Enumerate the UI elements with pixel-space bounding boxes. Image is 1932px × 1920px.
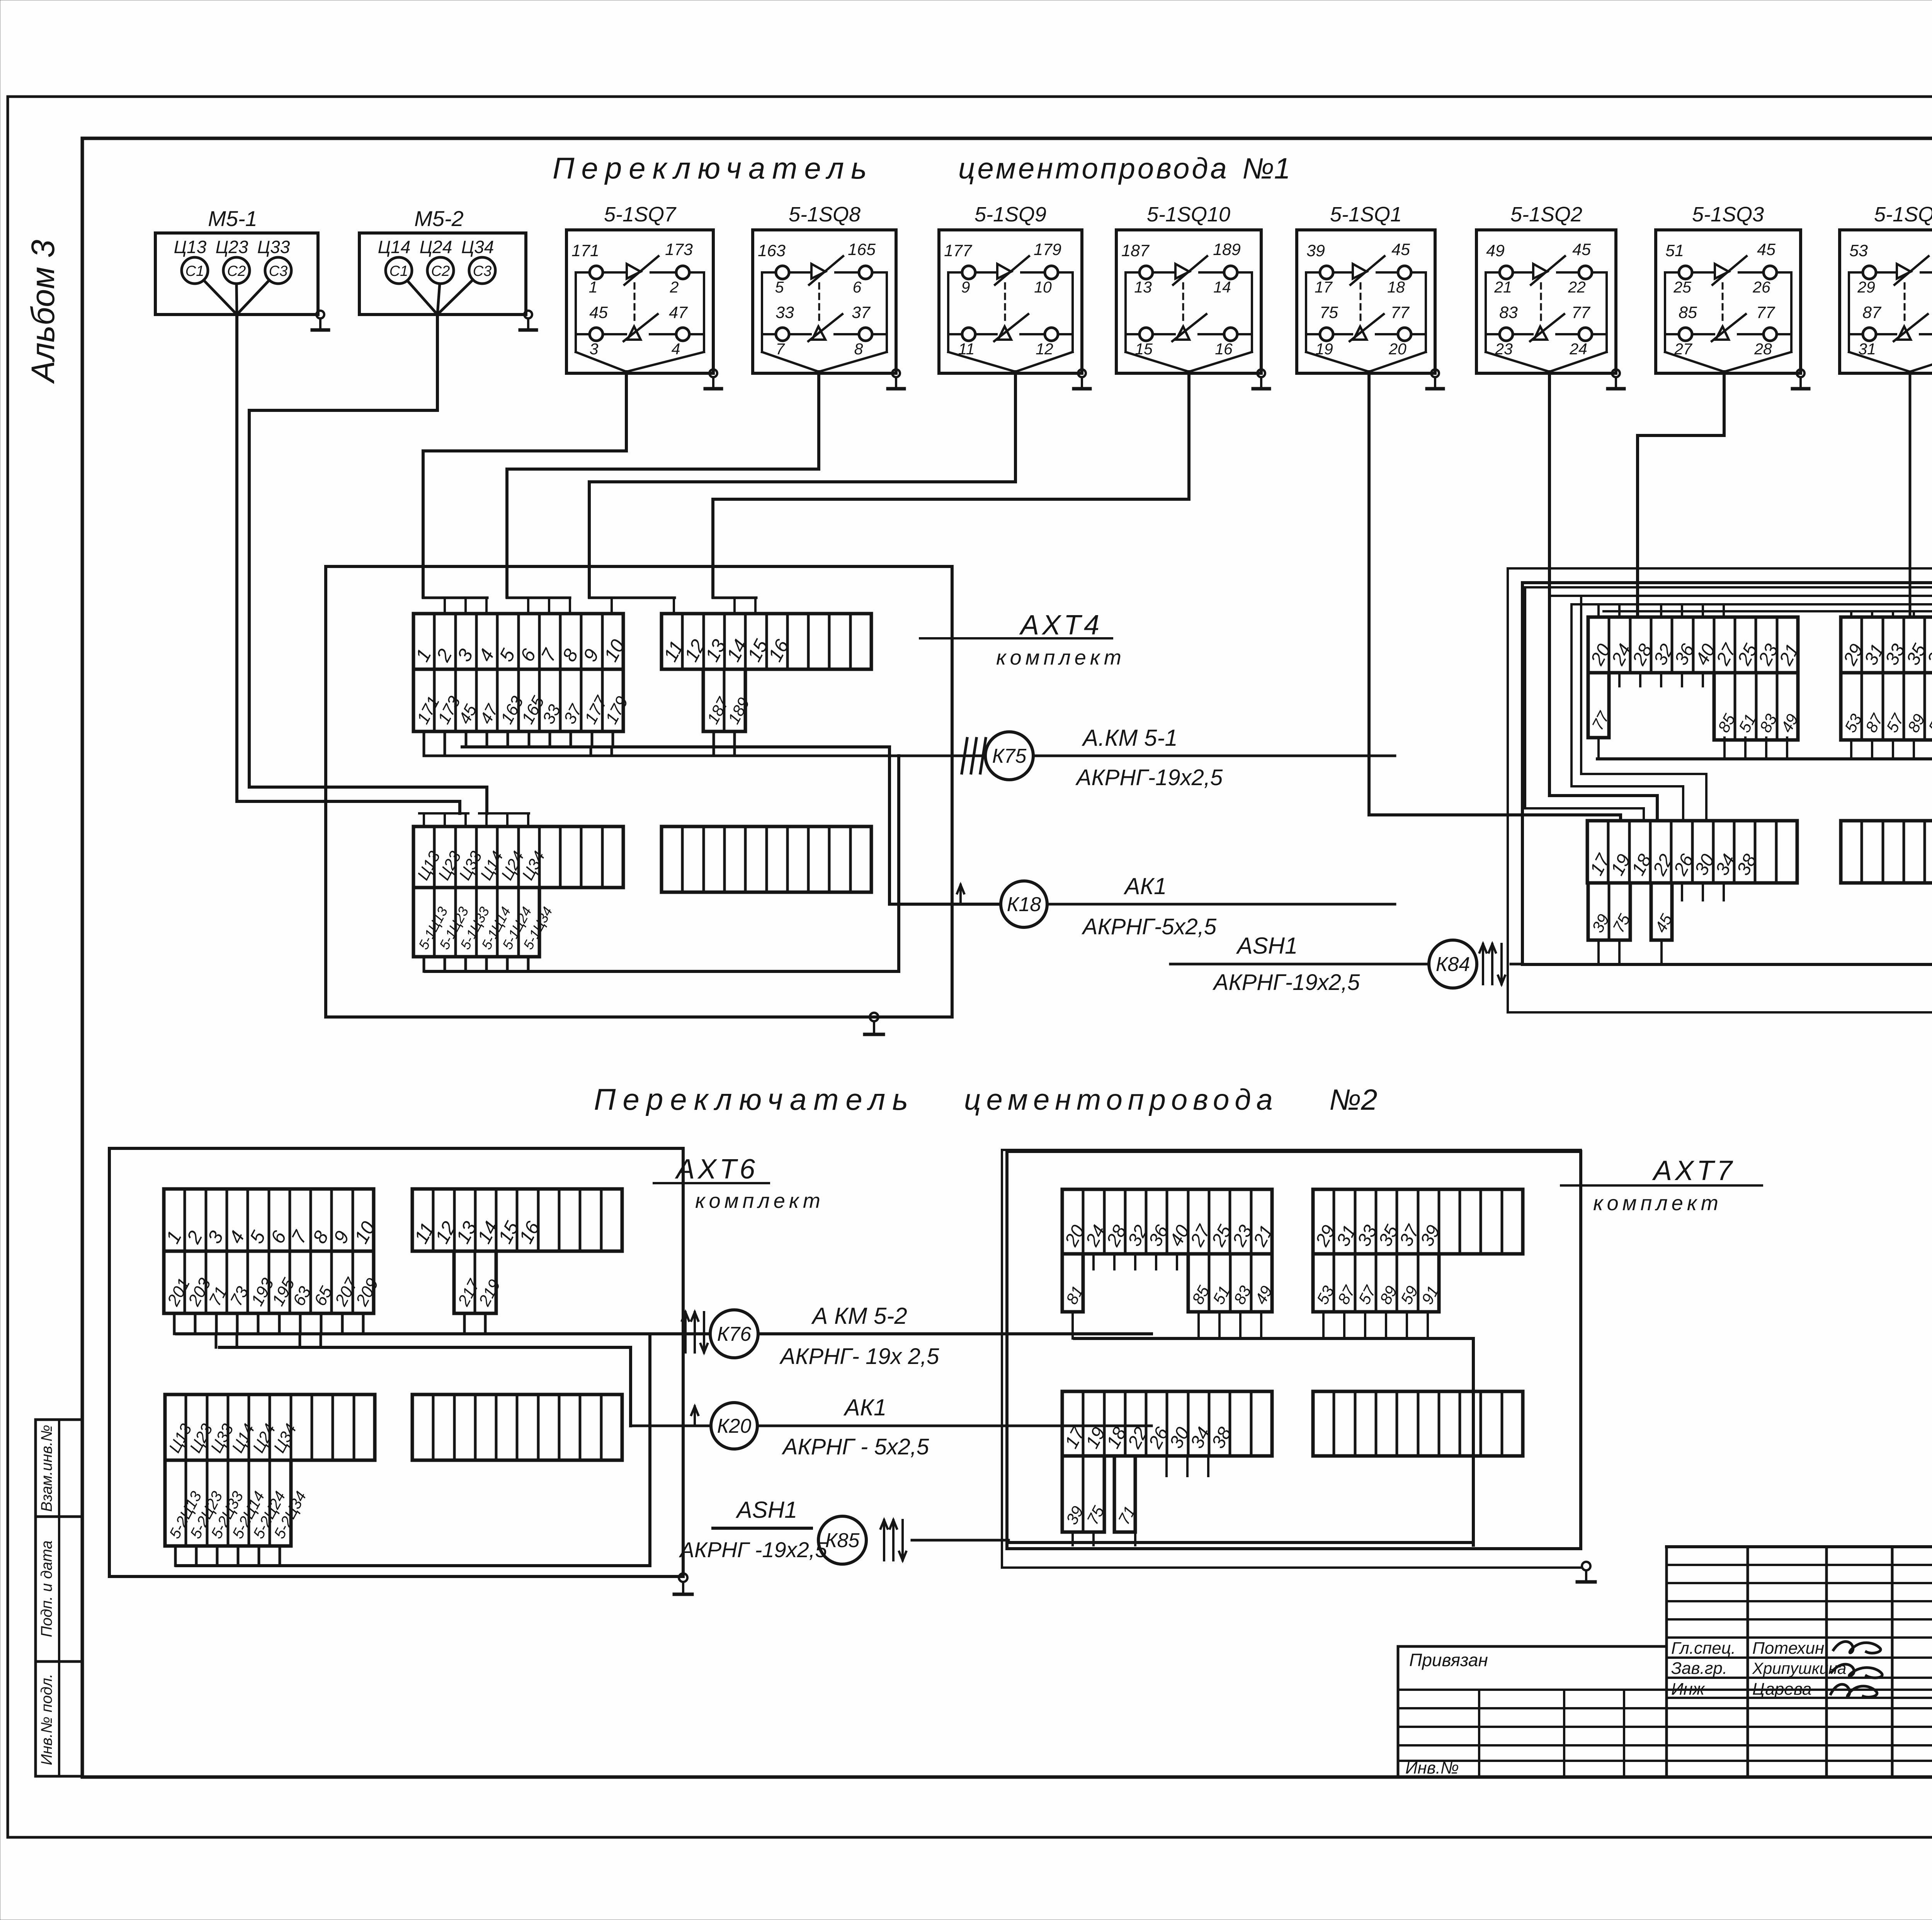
- AXT5 strip A lower cell 77: [1588, 673, 1609, 738]
- AXT6 strip 1 row pins 1-10: [164, 1189, 374, 1251]
- AXT7 bottom strip lower cells 39 75: [1062, 1456, 1104, 1532]
- svg-text:37: 37: [852, 303, 871, 322]
- svg-text:77: 77: [1756, 303, 1776, 322]
- svg-text:АКРНГ -19х2,5: АКРНГ -19х2,5: [679, 1537, 828, 1562]
- 5-1SQ3 top switch symbol: [1715, 264, 1729, 279]
- svg-text:К84: К84: [1436, 953, 1470, 976]
- AXT6 spare strip bottom right: [412, 1395, 622, 1460]
- svg-text:5-1SQ2: 5-1SQ2: [1510, 203, 1582, 226]
- 5-1SQ7 wiring funnel: [575, 272, 577, 352]
- 5-1SQ4 top switch symbol: [1897, 264, 1911, 279]
- cable connector K20: [711, 1403, 757, 1449]
- ground 5-1SQ2: [1612, 369, 1620, 377]
- 5-1SQ1 contact top terminals 39/45: [1320, 266, 1333, 279]
- AXT7 strip A lower cell 81: [1062, 1254, 1083, 1312]
- AXT4 bottom strip row Ц13-Ц34: [413, 827, 623, 888]
- svg-text:Инв.№ подл.: Инв.№ подл.: [38, 1673, 55, 1765]
- wire 5-1SQ1 to AXT5 bottom strip: [1369, 372, 1621, 821]
- left table columns: [1478, 1690, 1480, 1777]
- AXT4 stubs from XT1 to buses: [423, 731, 425, 747]
- 5-1SQ10 wiring funnel: [1124, 272, 1127, 352]
- AXT5 internal wires to bottom strip: [1581, 596, 1706, 821]
- wire 5-1SQ3 into AXT5: [1638, 372, 1724, 617]
- AXT5 strip A row 20-21: [1588, 617, 1798, 673]
- AXT4 bus 2 to cable K75: [425, 755, 985, 757]
- left table Привязан: [1398, 1645, 1667, 1648]
- AXT5 bus jog to bottom: [1597, 759, 1932, 963]
- cable connector K85: [818, 1516, 866, 1564]
- svg-text:С1: С1: [389, 263, 408, 279]
- svg-text:К85: К85: [825, 1529, 860, 1552]
- wire M5-2 to AXT4 bottom strip: [249, 314, 487, 813]
- svg-text:22: 22: [1568, 278, 1586, 296]
- ground 5-1SQ1: [1431, 369, 1439, 377]
- svg-text:53: 53: [1849, 241, 1868, 260]
- AXT5 spare strip bottom right: [1841, 821, 1932, 883]
- svg-text:16: 16: [1215, 340, 1233, 358]
- wire 5-1SQ4 into AXT5: [1909, 372, 1912, 617]
- AXT5 strip A lower cells 85-49: [1714, 673, 1798, 740]
- svg-text:А КМ 5-2: А КМ 5-2: [811, 1303, 907, 1329]
- svg-text:18: 18: [1387, 278, 1405, 296]
- AXT4 branch K75 bus to bottom bus: [897, 756, 900, 971]
- svg-text:24: 24: [1569, 340, 1587, 358]
- AXT4 bottom strip input brackets: [419, 812, 468, 815]
- 5-1SQ4 contact top terminals 53/45: [1863, 266, 1876, 279]
- wire 5-1SQ2 into AXT5: [1549, 372, 1657, 821]
- svg-text:5: 5: [775, 278, 784, 296]
- ground AXT6: [679, 1573, 687, 1582]
- svg-text:С2: С2: [431, 263, 450, 279]
- svg-text:20: 20: [1388, 340, 1406, 358]
- 5-1SQ2 mechanical link: [1540, 283, 1542, 323]
- svg-text:87: 87: [1862, 303, 1882, 322]
- svg-text:45: 45: [1572, 240, 1591, 259]
- svg-text:Переключатель: Переключатель: [553, 151, 874, 185]
- svg-text:187: 187: [1121, 241, 1150, 260]
- svg-text:АКРНГ-19х2,5: АКРНГ-19х2,5: [1075, 765, 1223, 790]
- 5-1SQ10 contact top terminals 187/189: [1139, 266, 1153, 279]
- svg-text:К76: К76: [717, 1323, 752, 1345]
- svg-text:5-1SQ7: 5-1SQ7: [604, 203, 677, 226]
- 5-1SQ8 bottom switch symbol: [812, 327, 825, 340]
- svg-text:АК1: АК1: [1124, 873, 1167, 899]
- 5-1SQ2 bottom switch symbol: [1534, 327, 1547, 340]
- svg-text:28: 28: [1754, 340, 1772, 358]
- М5-2 phase terminal Ц34 (С3): [469, 257, 495, 284]
- terminal assembly AXT5 outer enclosure: [1508, 568, 1932, 1012]
- svg-text:163: 163: [758, 241, 786, 260]
- cable connector K76: [710, 1310, 758, 1358]
- svg-text:Потехин: Потехин: [1752, 1639, 1824, 1658]
- svg-text:49: 49: [1486, 241, 1505, 260]
- svg-text:Ц23: Ц23: [216, 237, 248, 257]
- svg-text:33: 33: [776, 303, 794, 322]
- svg-text:АКРНГ-19х2,5: АКРНГ-19х2,5: [1213, 970, 1360, 995]
- AXT5 strip A small stubs: [1618, 673, 1621, 686]
- terminal assembly AXT4 enclosure: [326, 566, 952, 1017]
- svg-text:25: 25: [1673, 278, 1691, 296]
- svg-text:Гл.спец.: Гл.спец.: [1671, 1639, 1736, 1658]
- cable marks K85: [883, 1520, 885, 1560]
- AXT6 stubs strip2 to bus: [463, 1313, 466, 1334]
- svg-text:Зав.гр.: Зав.гр.: [1671, 1659, 1727, 1678]
- svg-text:Альбом 3: Альбом 3: [25, 240, 61, 384]
- svg-text:АКРНГ-5х2,5: АКРНГ-5х2,5: [1082, 914, 1217, 939]
- terminal assembly AXT7 outer enclosure: [1001, 1150, 1003, 1568]
- AXT6 bottom stubs to bus 3: [174, 1546, 177, 1566]
- terminal assembly AXT6 enclosure: [109, 1148, 683, 1576]
- AXT7 strip B row 29-39: [1313, 1189, 1523, 1254]
- 5-1SQ9 wiring funnel: [947, 272, 949, 352]
- 5-1SQ3 mechanical link: [1722, 283, 1724, 323]
- AXT7 bottom bus: [1009, 1541, 1473, 1544]
- svg-text:Ц14: Ц14: [378, 237, 411, 257]
- svg-text:77: 77: [1571, 303, 1591, 322]
- svg-text:№2: №2: [1329, 1083, 1378, 1116]
- svg-text:6: 6: [853, 278, 862, 296]
- AXT4 terminal strip XT2 circuits 187 189: [703, 669, 745, 731]
- 5-1SQ7 top switch symbol: [627, 264, 641, 279]
- svg-text:5-1SQ3: 5-1SQ3: [1692, 203, 1764, 226]
- ground 5-1SQ7: [709, 369, 717, 377]
- wire K84 to AXT5: [1511, 963, 1522, 966]
- 5-1SQ4 bottom switch symbol: [1898, 327, 1911, 340]
- svg-text:К75: К75: [992, 745, 1027, 767]
- svg-text:К20: К20: [717, 1415, 752, 1437]
- svg-text:комплект: комплект: [695, 1189, 824, 1213]
- 5-1SQ1 wiring funnel: [1305, 272, 1307, 352]
- svg-text:Взам.инв.№: Взам.инв.№: [38, 1425, 55, 1512]
- 5-1SQ4 contact bottom terminals: [1863, 328, 1876, 341]
- AXT7 bottom strip lower cell 71: [1114, 1456, 1135, 1532]
- cable marks K75: [962, 738, 967, 773]
- wire 5-1SQ9 to AXT4: [589, 372, 1015, 597]
- 5-1SQ8 wiring funnel: [761, 272, 763, 352]
- title block mid table empty rows: [1667, 1564, 1932, 1566]
- svg-text:10: 10: [1034, 278, 1052, 296]
- М5-2 phase terminal Ц14 (С1): [386, 257, 412, 284]
- AXT7 spare strip bottom right: [1313, 1391, 1523, 1456]
- 5-1SQ2 wiring funnel: [1485, 272, 1487, 352]
- AXT6 stubs strip1 to buses: [173, 1313, 176, 1334]
- 5-1SQ2 contact bottom terminals: [1500, 328, 1513, 341]
- М5-1 phase terminal Ц13 (С1): [182, 257, 208, 284]
- AXT5 bottom strip lower cell 45: [1651, 883, 1672, 940]
- svg-text:АХТ7: АХТ7: [1652, 1155, 1735, 1186]
- 5-1SQ9 contact top terminals 177/179: [962, 266, 975, 279]
- svg-text:77: 77: [1391, 303, 1410, 322]
- cable connector K18: [1001, 881, 1047, 927]
- AXT7 strip A row 20-21: [1062, 1189, 1272, 1254]
- AXT5 bus from strips: [1597, 738, 1600, 759]
- svg-text:26: 26: [1752, 278, 1770, 296]
- AXT5 strip B row 29-39: [1841, 617, 1932, 673]
- svg-text:45: 45: [1757, 240, 1776, 259]
- AXT7 strip A lower cells 85-49: [1188, 1254, 1272, 1312]
- svg-text:12: 12: [1036, 340, 1053, 358]
- terminal assembly AXT5 inner box: [1522, 583, 1932, 964]
- 5-1SQ7 contact top terminals 171/173: [590, 266, 603, 279]
- svg-text:С1: С1: [185, 263, 204, 279]
- cable mark K18: [959, 885, 962, 904]
- svg-text:29: 29: [1857, 278, 1875, 296]
- 5-1SQ7 contact bottom terminals: [590, 328, 603, 341]
- AXT6 bottom strip row 5-2Ц13 - 5-2Ц34: [165, 1460, 291, 1546]
- 5-1SQ9 bottom switch symbol: [998, 327, 1011, 340]
- AXT6 strip 1 row circuits 201-209: [164, 1251, 374, 1313]
- 5-1SQ7 mechanical link: [634, 283, 636, 323]
- 5-1SQ10 top switch symbol: [1175, 264, 1189, 279]
- wire 5-1SQ8 to AXT4: [507, 372, 819, 597]
- svg-text:4: 4: [672, 340, 680, 358]
- AXT4 terminal strip XT2 row pins 11-16: [662, 614, 871, 669]
- cable АК1 wire and labels section 2: [631, 1425, 711, 1427]
- svg-text:45: 45: [589, 303, 608, 322]
- 5-1SQ4 wiring funnel: [1848, 272, 1850, 352]
- AXT5 strip B lower cells 53-91: [1841, 673, 1932, 740]
- signatures: [1833, 1641, 1881, 1653]
- svg-text:А.КМ 5-1: А.КМ 5-1: [1082, 725, 1177, 751]
- 5-1SQ9 mechanical link: [1004, 283, 1006, 323]
- 5-1SQ1 contact bottom terminals: [1320, 328, 1333, 341]
- terminal assembly AXT7 inner box: [1007, 1151, 1581, 1549]
- svg-text:АХТ6: АХТ6: [675, 1154, 758, 1185]
- svg-text:Привязан: Привязан: [1409, 1650, 1488, 1670]
- svg-text:С2: С2: [227, 263, 246, 279]
- svg-text:АКРНГ - 5х2,5: АКРНГ - 5х2,5: [782, 1434, 929, 1459]
- wire to K18: [889, 903, 1001, 906]
- svg-text:47: 47: [669, 303, 688, 322]
- svg-text:М5-1: М5-1: [208, 206, 257, 231]
- svg-text:комплект: комплект: [1593, 1192, 1722, 1215]
- svg-text:ASH1: ASH1: [736, 1497, 798, 1523]
- М5-2 phase terminal Ц24 (С2): [427, 257, 454, 284]
- svg-text:39: 39: [1306, 241, 1325, 260]
- 5-1SQ2 top switch symbol: [1533, 264, 1547, 279]
- svg-text:Ц34: Ц34: [461, 237, 494, 257]
- wire M5-1 to AXT4 bottom strip: [237, 315, 460, 813]
- AXT4 terminal strip XT1 row circuits 171-179: [413, 669, 623, 731]
- svg-text:173: 173: [665, 240, 693, 259]
- title block mid table columns: [1665, 1547, 1668, 1777]
- svg-text:85: 85: [1679, 303, 1697, 322]
- svg-text:2: 2: [670, 278, 679, 296]
- cable connector K84: [1429, 940, 1477, 988]
- AXT7 bottom strip row 17-38: [1062, 1391, 1272, 1456]
- svg-text:К18: К18: [1007, 893, 1041, 916]
- cable marks K76: [684, 1312, 687, 1352]
- svg-text:Подп. и дата: Подп. и дата: [38, 1541, 55, 1637]
- svg-text:8: 8: [854, 340, 863, 358]
- AXT4 stubs XT2 to bus: [713, 731, 715, 756]
- svg-text:С3: С3: [269, 263, 288, 279]
- AXT4 stubs bottom strip to bus 3: [423, 957, 425, 971]
- title block signature rows: [1667, 1656, 1932, 1659]
- left table rows: [1398, 1689, 1932, 1691]
- svg-text:М5-2: М5-2: [414, 206, 464, 231]
- svg-text:189: 189: [1213, 240, 1241, 259]
- svg-text:ASH1: ASH1: [1236, 933, 1298, 959]
- svg-text:14: 14: [1213, 278, 1231, 296]
- title block top edge: [1667, 1545, 1932, 1548]
- cable АКМ5-1 wire and labels: [1033, 755, 1395, 757]
- AXT7 bus to bottom: [1075, 1338, 1473, 1545]
- 5-1SQ3 wiring funnel: [1664, 272, 1666, 352]
- cable АКМ5-2 wire and labels: [650, 1332, 710, 1335]
- 5-1SQ9 contact bottom terminals: [962, 328, 975, 341]
- AXT5 bottom strip row 17-38: [1587, 821, 1797, 883]
- svg-text:АКРНГ- 19х 2,5: АКРНГ- 19х 2,5: [779, 1344, 939, 1369]
- cable connector K75: [985, 732, 1033, 780]
- svg-text:45: 45: [1391, 240, 1410, 259]
- svg-text:№1: №1: [1242, 152, 1291, 185]
- AXT7 bottom stubs: [1071, 1532, 1074, 1545]
- left margin label cells: [36, 1418, 82, 1421]
- AXT6 bus 2 jog to K20: [219, 1347, 631, 1426]
- AXT7 stubs to bus: [1071, 1312, 1074, 1338]
- ground М5-1: [316, 311, 324, 318]
- ground AXT4: [870, 1013, 878, 1021]
- svg-text:Ц24: Ц24: [420, 237, 452, 257]
- AXT5 band drops to strips: [1597, 604, 1600, 617]
- svg-text:75: 75: [1320, 303, 1338, 322]
- svg-text:комплект: комплект: [996, 646, 1125, 669]
- cable mark K20: [694, 1406, 696, 1426]
- svg-text:5-1SQ10: 5-1SQ10: [1147, 203, 1230, 226]
- 5-1SQ10 contact bottom terminals: [1139, 328, 1153, 341]
- AXT7 bottom strip small stubs: [1165, 1456, 1168, 1476]
- ground 5-1SQ3: [1797, 369, 1804, 377]
- svg-text:177: 177: [944, 241, 973, 260]
- 5-1SQ3 contact top terminals 51/45: [1679, 266, 1692, 279]
- svg-text:Хрипушкина: Хрипушкина: [1752, 1659, 1846, 1677]
- AXT4 bus 1 to K18 junction: [462, 747, 889, 904]
- svg-text:АК1: АК1: [844, 1395, 887, 1420]
- svg-text:5-1SQ1: 5-1SQ1: [1330, 203, 1402, 226]
- 5-1SQ1 bottom switch symbol: [1354, 327, 1367, 340]
- svg-text:5-1SQ4: 5-1SQ4: [1874, 203, 1932, 226]
- svg-text:7: 7: [776, 340, 786, 358]
- 5-1SQ8 top switch symbol: [811, 264, 825, 279]
- svg-text:С3: С3: [473, 263, 492, 279]
- svg-text:179: 179: [1034, 240, 1061, 259]
- AXT6 strip 2 circuits 217 219: [454, 1251, 496, 1313]
- AXT7 strip B lower cells 53-91: [1313, 1254, 1439, 1312]
- AXT4 terminal strip XT1 row pins 1-10: [413, 614, 623, 669]
- AXT6 strip 2 row pins 11-16: [412, 1189, 622, 1251]
- svg-text:165: 165: [848, 240, 876, 259]
- 5-1SQ1 mechanical link: [1360, 283, 1362, 323]
- svg-text:13: 13: [1134, 278, 1152, 296]
- ground 5-1SQ10: [1257, 369, 1265, 377]
- ground 5-1SQ9: [1078, 369, 1086, 377]
- 5-1SQ2 contact top terminals 49/45: [1500, 266, 1513, 279]
- М5-1 phase terminal Ц23 (С2): [223, 257, 250, 284]
- 5-1SQ3 contact bottom terminals: [1679, 328, 1692, 341]
- svg-text:Инв.№: Инв.№: [1405, 1758, 1459, 1777]
- М5-1 phase terminal Ц33 (С3): [265, 257, 291, 284]
- AXT5 bottom strip lower cells 39 75: [1588, 883, 1630, 940]
- svg-text:Ц33: Ц33: [257, 237, 290, 257]
- svg-text:21: 21: [1494, 278, 1512, 296]
- AXT5 bottom stubs to bus: [1597, 940, 1600, 963]
- AXT4 bus 3 (AK1): [425, 970, 899, 973]
- AXT6 bottom strip row Ц13-Ц34: [165, 1395, 375, 1460]
- wire 5-1SQ10 to AXT4: [713, 372, 1189, 597]
- svg-text:51: 51: [1665, 241, 1684, 260]
- 5-1SQ10 mechanical link: [1182, 283, 1184, 323]
- svg-text:цементопровода: цементопровода: [964, 1083, 1278, 1116]
- AXT7 strip A small stubs: [1092, 1254, 1095, 1269]
- svg-text:9: 9: [961, 278, 970, 296]
- svg-text:83: 83: [1499, 303, 1518, 322]
- svg-text:Переключатель: Переключатель: [594, 1082, 915, 1116]
- 5-1SQ7 bottom switch symbol: [628, 327, 641, 340]
- 5-1SQ10 bottom switch symbol: [1176, 327, 1189, 340]
- AXT5 internal routing band: [1525, 586, 1932, 588]
- 5-1SQ8 contact bottom terminals: [776, 328, 789, 341]
- AXT4 bottom strip row 5-1Ц13 - 5-1Ц34: [413, 888, 539, 957]
- svg-text:5-1SQ9: 5-1SQ9: [975, 203, 1046, 226]
- svg-text:АХТ4: АХТ4: [1019, 610, 1102, 641]
- svg-text:5-1SQ8: 5-1SQ8: [789, 203, 861, 226]
- ground AXT7: [1582, 1562, 1590, 1570]
- svg-text:17: 17: [1315, 278, 1333, 296]
- wire 5-1SQ7 to AXT4: [423, 372, 626, 597]
- cable АК1 wire and labels: [1047, 903, 1395, 906]
- svg-text:Ц13: Ц13: [174, 237, 207, 257]
- 5-1SQ9 top switch symbol: [997, 264, 1011, 279]
- 5-1SQ1 top switch symbol: [1353, 264, 1367, 279]
- cable ASH1 wire and labels: [1170, 963, 1429, 966]
- 5-1SQ3 bottom switch symbol: [1716, 327, 1729, 340]
- ground 5-1SQ8: [892, 369, 900, 377]
- wire K85 to AXT7: [912, 1539, 1009, 1542]
- AXT6 bus 1 to K76: [177, 1332, 650, 1335]
- 5-1SQ8 contact top terminals 163/165: [776, 266, 789, 279]
- 5-1SQ4 mechanical link: [1904, 283, 1906, 323]
- ground М5-2: [524, 311, 532, 318]
- svg-text:3: 3: [590, 340, 599, 358]
- svg-text:цементопровода: цементопровода: [958, 152, 1229, 185]
- AXT5 bottom strip small stubs: [1681, 883, 1683, 900]
- AXT4 terminal strip XT1 input brackets: [423, 597, 487, 599]
- AXT4 spare strip bottom right: [662, 827, 871, 892]
- svg-text:171: 171: [571, 241, 599, 260]
- svg-text:1: 1: [589, 278, 598, 296]
- cable marks K84: [1482, 944, 1484, 984]
- AXT6 bus 3 riser to K76 wire: [177, 1334, 650, 1566]
- 5-1SQ8 mechanical link: [818, 283, 820, 323]
